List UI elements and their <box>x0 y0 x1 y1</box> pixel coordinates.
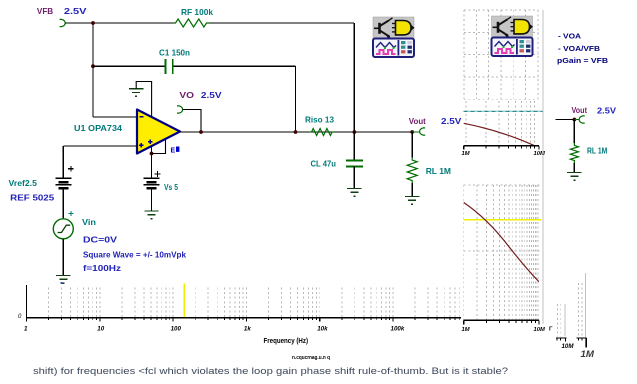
wire CL to ground <box>353 166 355 188</box>
junction VFB top <box>91 21 95 25</box>
svg-text:Square Wave = +/- 10mVpk: Square Wave = +/- 10mVpk <box>83 250 186 260</box>
graph2 log grid columns <box>464 185 539 320</box>
battery Vref REF5025 <box>55 178 71 188</box>
wire C1 corner down to output <box>295 66 297 132</box>
wire enable pin <box>152 140 166 154</box>
resistor RF 100k <box>173 19 209 27</box>
graph2 yellow cursor line <box>464 219 542 221</box>
svg-text:Riso 13: Riso 13 <box>305 115 334 125</box>
graph windows right frame <box>542 10 544 324</box>
graph2 dashed grid rows <box>464 184 542 186</box>
op-amp plus input mark <box>139 143 144 148</box>
fragment B axis piece <box>577 338 587 348</box>
svg-text:RL 1M: RL 1M <box>587 146 607 156</box>
wire CL down <box>353 132 355 160</box>
svg-text:1k: 1k <box>244 326 251 333</box>
op-amp power pin wire <box>151 146 153 178</box>
svg-text:n.cqucrnag.u.n q: n.cqucrnag.u.n q <box>292 355 330 361</box>
battery Vref plus mark <box>68 166 74 172</box>
fragment A dashed columns <box>556 304 558 337</box>
graph1 teal 0dB trace (VOA/VFB) <box>464 110 543 112</box>
op-amp U1 OPA734 <box>137 110 180 154</box>
svg-text:f=100Hz: f=100Hz <box>83 263 121 273</box>
wire right Vout down <box>573 120 575 144</box>
svg-text:VO: VO <box>179 90 194 100</box>
svg-text:100k: 100k <box>391 326 405 333</box>
resistor RL 1M <box>411 132 413 158</box>
fragment A axis piece <box>556 338 567 342</box>
source Vin waveform glyph <box>58 225 71 232</box>
node Vout probe <box>412 131 419 133</box>
wire RL to ground <box>411 183 413 197</box>
svg-text:- VOA: - VOA <box>558 32 581 41</box>
svg-text:1M: 1M <box>462 151 470 157</box>
svg-text:10M: 10M <box>534 327 545 333</box>
label E enable marker <box>171 147 180 155</box>
junction C1 tap <box>91 64 95 68</box>
svg-text:1M: 1M <box>581 349 596 360</box>
wire top to RF <box>93 22 173 24</box>
background time-graph uniform grid <box>464 10 539 99</box>
op-amp minus input mark <box>140 116 144 118</box>
fragment B dashed columns <box>578 283 580 337</box>
wire right fragment stub <box>556 119 575 121</box>
wire right RL to ground <box>573 163 575 173</box>
svg-text:C1 150n: C1 150n <box>159 48 190 58</box>
wire VO probe to output <box>183 110 201 133</box>
capacitor C1 150n <box>165 59 172 74</box>
svg-text:Vout: Vout <box>572 105 588 115</box>
svg-text:DC=0V: DC=0V <box>83 235 117 245</box>
bottom axis decade labels <box>24 326 405 333</box>
svg-text:1: 1 <box>24 326 28 333</box>
yellow cursor line at ~140Hz <box>183 284 185 318</box>
svg-text:10: 10 <box>97 326 104 333</box>
svg-text:shift) for frequencies <fcl wh: shift) for frequencies <fcl which violat… <box>33 366 508 377</box>
wire Vs to ground <box>151 188 153 211</box>
svg-text:U1 OPA734: U1 OPA734 <box>74 123 122 133</box>
bottom graph y-axis <box>26 285 28 318</box>
node VFB test point <box>60 19 66 26</box>
graph1 window background <box>461 101 544 157</box>
ground right fragment <box>567 173 581 181</box>
svg-text:Vin: Vin <box>82 217 96 227</box>
svg-text:REF 5025: REF 5025 <box>10 193 54 203</box>
wire to Vref battery <box>62 146 64 178</box>
wire RF to corner <box>209 22 354 24</box>
wire C1 to corner <box>174 65 296 67</box>
instrument icon pair 2 <box>492 16 533 38</box>
resistor Riso 13 <box>309 129 335 136</box>
battery Vs plus mark <box>155 171 161 177</box>
svg-text:pGain = VFB: pGain = VFB <box>557 56 608 65</box>
wire op-amp output <box>180 131 412 133</box>
instrument icon pair 1 <box>373 17 414 39</box>
graph2 red phase curve <box>464 203 539 282</box>
resistor right RL 1M <box>570 143 578 163</box>
junction right Vout <box>573 118 577 122</box>
graph2 window background <box>461 183 543 325</box>
junction power pin <box>150 152 154 156</box>
wire Vref to Vin <box>62 188 64 219</box>
svg-text:10M: 10M <box>562 343 575 350</box>
svg-text:CL 47u: CL 47u <box>311 159 337 169</box>
ground below Vin <box>56 276 70 284</box>
wire down to output node <box>353 23 355 132</box>
op-amp V+ pin mark <box>148 140 153 145</box>
bottom graph dashed grid columns <box>49 288 540 318</box>
svg-text:2.5V: 2.5V <box>597 106 616 116</box>
ground opamp negative supply <box>129 89 143 97</box>
graph2 x-axis <box>464 319 539 321</box>
source Vin circle <box>53 219 73 239</box>
svg-text:2.5V: 2.5V <box>441 116 462 126</box>
svg-text:Γ: Γ <box>549 327 553 333</box>
wire VFB column down <box>92 23 94 117</box>
wire junction to C1 <box>93 65 165 67</box>
ground below CL <box>347 189 361 197</box>
wire noninverting input <box>63 145 137 147</box>
svg-text:1M: 1M <box>462 327 470 333</box>
source Vin plus mark <box>69 211 74 216</box>
junction Vout <box>410 130 414 134</box>
svg-text:Frequency (Hz): Frequency (Hz) <box>264 338 309 345</box>
wire inverting input <box>93 116 137 118</box>
svg-text:100: 100 <box>171 326 182 333</box>
svg-text:- VOA/VFB: - VOA/VFB <box>558 44 600 53</box>
capacitor CL 47u <box>346 161 363 167</box>
svg-text:RF 100k: RF 100k <box>181 7 213 17</box>
svg-text:RL 1M: RL 1M <box>426 166 451 176</box>
svg-text:VFB: VFB <box>37 6 53 16</box>
svg-text:Vs 5: Vs 5 <box>164 182 178 192</box>
svg-text:Vref2.5: Vref2.5 <box>9 178 38 188</box>
bottom graph x-axis <box>26 317 540 319</box>
junction VO tap <box>199 130 203 134</box>
ground below Vs <box>144 211 158 219</box>
graph1 x-axis <box>464 145 539 147</box>
svg-text:Vout: Vout <box>409 116 426 126</box>
junction C1 feedback at output <box>294 130 298 134</box>
battery Vs 5 <box>144 178 160 188</box>
svg-text:10k: 10k <box>317 326 328 333</box>
wire Vin to ground <box>62 239 64 276</box>
wire ground to V- pin <box>136 82 151 118</box>
graph1 log grid columns <box>466 101 534 146</box>
node VO probe <box>177 106 183 113</box>
svg-text:2.5V: 2.5V <box>201 90 222 100</box>
junction RF feedback node <box>353 130 357 134</box>
wire VFB to junction <box>65 22 93 24</box>
ground below RL <box>405 197 419 205</box>
svg-text:E: E <box>171 148 176 155</box>
stray blue dot <box>61 282 63 284</box>
graph1 red gain curve <box>464 123 534 145</box>
node right Vout probe <box>574 119 579 121</box>
svg-text:2.5V: 2.5V <box>64 6 87 16</box>
